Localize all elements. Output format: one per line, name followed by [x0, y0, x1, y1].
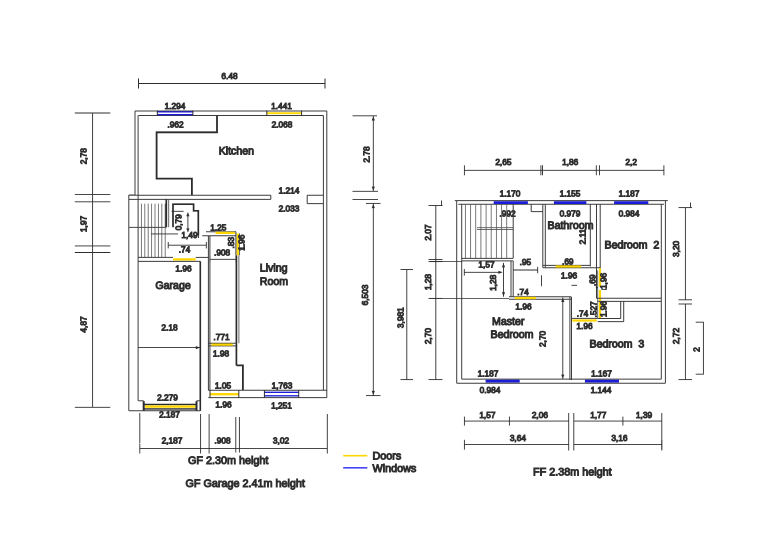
svg-text:Master: Master: [492, 316, 525, 328]
FF bottom window bed3 blue: [585, 380, 619, 383]
svg-text:1,97: 1,97: [79, 216, 89, 233]
svg-text:.962: .962: [167, 120, 184, 130]
svg-text:1.96: 1.96: [576, 321, 593, 331]
FF right bracket 2: [696, 322, 704, 374]
GF living room step wall: [236, 365, 243, 390]
FF master door .74 yellow: [515, 297, 536, 299]
GF hall top wall with door 1.25: [202, 232, 236, 236]
svg-text:1.98: 1.98: [213, 349, 230, 359]
svg-text:2,06: 2,06: [532, 410, 549, 420]
FF stairs treads: [465, 204, 506, 258]
svg-text:2,65: 2,65: [495, 157, 512, 167]
svg-text:2,2: 2,2: [625, 157, 637, 167]
svg-text:Bedroom: Bedroom: [491, 329, 534, 341]
svg-text:1.167: 1.167: [591, 369, 612, 379]
GF kitchen nook wall: [157, 116, 217, 196]
svg-text:1,49: 1,49: [181, 230, 198, 240]
svg-text:Garage: Garage: [155, 280, 190, 292]
svg-text:Bedroom 2: Bedroom 2: [605, 239, 660, 251]
GF living room entrance door vertical: [236, 232, 245, 256]
GF door bottom 1.96 yellow: [210, 393, 239, 395]
GF hall living left wall: [208, 236, 210, 391]
GF window top blue: [157, 112, 193, 115]
svg-text:GF 2.30m height: GF 2.30m height: [188, 455, 268, 467]
svg-text:1.214: 1.214: [279, 185, 300, 195]
GF dim .908: [210, 256, 236, 263]
FF landing dim 1,28 vertical: [503, 263, 505, 297]
FF bed3 nook door .74 yellow: [572, 317, 598, 319]
svg-text:Kitchen: Kitchen: [219, 146, 254, 158]
svg-text:2.068: 2.068: [272, 120, 293, 130]
svg-text:1,251: 1,251: [271, 401, 292, 411]
GF door top yellow: [267, 112, 302, 114]
svg-text:1.187: 1.187: [619, 189, 640, 199]
FF bottom dimension row 2: [464, 440, 661, 450]
GF bottom dimension line: [140, 413, 327, 454]
svg-text:Doors: Doors: [373, 451, 402, 463]
svg-text:.69: .69: [587, 274, 597, 286]
svg-text:2.78: 2.78: [362, 146, 372, 163]
svg-text:3,64: 3,64: [510, 433, 527, 443]
svg-text:1,57: 1,57: [479, 410, 496, 420]
GF door 1.25 yellow: [216, 232, 235, 234]
svg-text:2: 2: [692, 347, 702, 352]
svg-text:2,72: 2,72: [671, 328, 681, 345]
svg-text:6,503: 6,503: [360, 284, 370, 305]
svg-text:.95: .95: [520, 257, 532, 267]
FF left dimension lines: [401, 201, 510, 380]
svg-text:3,981: 3,981: [396, 307, 406, 328]
FF outer wall left: [457, 201, 462, 384]
svg-text:Bedroom 3: Bedroom 3: [590, 339, 645, 351]
GF bottom wall living room: [208, 390, 326, 397]
FF stair bottom wall: [462, 258, 514, 261]
svg-text:0.979: 0.979: [560, 209, 581, 219]
legend doors: [343, 455, 367, 457]
FF closet: [598, 301, 624, 321]
FF window top 2 blue: [554, 201, 587, 204]
svg-text:1,28: 1,28: [423, 274, 433, 291]
svg-text:2.033: 2.033: [279, 203, 300, 213]
FF master interior dim 2,70: [562, 298, 564, 380]
FF bedroom divider wall: [597, 298, 662, 301]
svg-text:1.170: 1.170: [500, 189, 521, 199]
GF stairwell right wall: [129, 199, 169, 227]
GF dimension 6.48 top: [139, 79, 326, 89]
svg-text:GF Garage 2.41m height: GF Garage 2.41m height: [186, 478, 305, 490]
FF wall stub below stairs: [511, 261, 513, 297]
FF outer wall bottom: [457, 379, 666, 383]
svg-text:2.11: 2.11: [578, 228, 588, 244]
svg-text:1,77: 1,77: [590, 410, 607, 420]
GF outer wall top: [135, 111, 327, 116]
FF bathroom bottom wall: [543, 265, 600, 267]
svg-text:1.144: 1.144: [591, 385, 612, 395]
svg-text:1,763: 1,763: [272, 380, 293, 390]
GF garage top door yellow 1.96: [173, 258, 196, 260]
svg-text:2.279: 2.279: [157, 393, 178, 403]
FF window top 3 blue: [614, 201, 648, 204]
FF bedroom2 left wall: [597, 204, 601, 298]
svg-text:Windows: Windows: [373, 463, 417, 475]
svg-text:1.294: 1.294: [165, 101, 186, 111]
FF bathroom left wall: [531, 204, 545, 267]
svg-text:2,78: 2,78: [79, 148, 89, 165]
svg-text:1,86: 1,86: [562, 157, 579, 167]
GF stair nook wall: [173, 204, 198, 235]
svg-text:2,70: 2,70: [537, 330, 547, 347]
svg-text:1.96: 1.96: [215, 400, 232, 410]
svg-text:2.187: 2.187: [159, 409, 180, 419]
svg-text:1.96: 1.96: [515, 302, 532, 312]
FF bottom dimension row 1: [464, 413, 661, 451]
svg-text:1.05: 1.05: [215, 380, 232, 390]
svg-text:6.48: 6.48: [221, 71, 238, 81]
FF stairwell right wall: [512, 204, 514, 258]
FF outer wall top: [455, 201, 668, 205]
GF wall below living door: [236, 255, 239, 365]
FF bathroom right wall: [589, 204, 591, 266]
GF right dimension line: [353, 116, 381, 396]
GF outer wall left: [129, 111, 138, 411]
GF kitchen hall wall band: [129, 195, 323, 203]
svg-text:FF 2.38m height: FF 2.38m height: [533, 467, 612, 479]
svg-text:4,87: 4,87: [79, 316, 89, 333]
svg-text:Living: Living: [260, 263, 288, 275]
svg-text:1,96: 1,96: [599, 272, 609, 289]
svg-text:1,39: 1,39: [636, 410, 653, 420]
FF outer wall right: [661, 201, 665, 384]
FF vertical door .69 yellow: [599, 268, 601, 287]
FF bottom window master blue: [486, 380, 520, 383]
svg-text:.771: .771: [213, 332, 230, 342]
GF garage door bottom: [129, 401, 201, 411]
GF dim 0,79 vertical arrow: [172, 211, 188, 232]
svg-text:1.25: 1.25: [210, 222, 227, 232]
svg-text:1.96: 1.96: [561, 271, 578, 281]
svg-text:2.07: 2.07: [423, 224, 433, 241]
svg-text:3,02: 3,02: [273, 436, 290, 446]
svg-text:3,20: 3,20: [671, 240, 681, 257]
GF stairs treads: [141, 204, 165, 258]
svg-text:.74: .74: [179, 245, 191, 255]
svg-text:2,187: 2,187: [162, 436, 183, 446]
GF outer wall right: [323, 111, 326, 398]
svg-text:Room: Room: [260, 276, 288, 288]
svg-text:1.187: 1.187: [478, 369, 499, 379]
FF master top wall: [509, 297, 571, 300]
legend windows: [343, 467, 367, 469]
svg-text:2.18: 2.18: [161, 322, 178, 332]
svg-text:1,28: 1,28: [488, 274, 498, 291]
FF right dimension line: [679, 203, 693, 380]
svg-text:.527: .527: [589, 301, 599, 318]
GF window bottom blue: [264, 392, 298, 396]
svg-text:1.96: 1.96: [599, 301, 609, 318]
FF stair mid landing lines: [477, 228, 513, 230]
GF dim 1,49: [151, 232, 199, 238]
svg-text:1.155: 1.155: [560, 189, 581, 199]
GF left dimension line: [75, 113, 111, 407]
svg-text:1.441: 1.441: [271, 101, 292, 111]
GF garage width dim 2.18: [138, 347, 200, 349]
svg-text:1,57: 1,57: [478, 260, 495, 270]
GF door .771 wall: [208, 343, 236, 346]
svg-text:1.96: 1.96: [237, 234, 247, 251]
svg-text:0,79: 0,79: [174, 214, 184, 231]
svg-text:.83: .83: [226, 237, 236, 249]
svg-text:.69: .69: [562, 257, 574, 267]
svg-text:0.984: 0.984: [480, 385, 501, 395]
svg-text:0.984: 0.984: [619, 209, 640, 219]
svg-text:.908: .908: [214, 436, 231, 446]
FF window top 1 blue: [494, 201, 528, 204]
svg-text:.74: .74: [577, 309, 589, 319]
FF top dimension line: [464, 165, 664, 175]
svg-text:2,70: 2,70: [423, 328, 433, 345]
svg-text:3,16: 3,16: [611, 433, 628, 443]
FF master bed3 divider wall: [570, 297, 572, 380]
GF dim .74: [168, 242, 206, 248]
svg-text:1.96: 1.96: [175, 264, 192, 274]
svg-text:.74: .74: [517, 287, 529, 297]
GF garage walls: [138, 257, 209, 410]
FF bathroom door yellow: [556, 265, 582, 267]
